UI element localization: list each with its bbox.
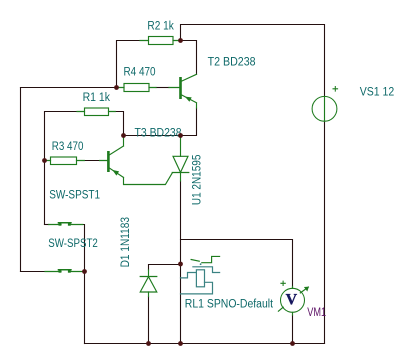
label R3 value <box>52 141 84 153</box>
resistor R2 <box>140 37 179 45</box>
wire SW1 left stub <box>45 224 49 226</box>
wire branch to VM1 <box>181 240 293 289</box>
wire R2 node to T2 collector <box>181 41 197 75</box>
voltmeter VM1 <box>278 281 309 315</box>
voltage source VS1 <box>312 86 338 121</box>
svg-text:R4 470: R4 470 <box>124 66 156 78</box>
wire node row U1 to T3 <box>124 135 181 137</box>
junction T3 collector node <box>121 133 126 138</box>
label R2 value <box>147 21 174 33</box>
svg-text:R2 1k: R2 1k <box>147 21 174 33</box>
resistor R4 <box>117 84 180 92</box>
svg-text:R3 470: R3 470 <box>52 141 84 153</box>
transistor T2 <box>179 74 196 108</box>
resistor R1 <box>77 108 115 116</box>
wire R1 left branch <box>45 112 78 225</box>
svg-text:R1 1k: R1 1k <box>83 92 111 104</box>
wire VM1 bottom <box>292 315 294 344</box>
thyristor U1 <box>172 136 189 182</box>
label SW-SPST1 <box>49 189 100 201</box>
label SW-SPST2 <box>48 238 98 250</box>
wire SW1 out down to SW2 node <box>83 225 85 272</box>
junction R4 left <box>114 85 119 90</box>
svg-text:RL1 SPNO-Default: RL1 SPNO-Default <box>185 299 274 311</box>
wire SW2 left stub <box>21 271 46 273</box>
svg-text:T3 BD238: T3 BD238 <box>135 128 182 140</box>
svg-text:T2 BD238: T2 BD238 <box>208 56 256 68</box>
wire node to D1 <box>149 265 181 271</box>
wire right rail <box>324 121 326 343</box>
wire SW2 node down <box>84 272 86 344</box>
wire left rail <box>20 88 22 272</box>
wire R1 right to T3 collector node <box>115 112 123 136</box>
switch SW-SPST1 <box>49 222 83 226</box>
label RL1 <box>185 299 274 311</box>
junction D1 bottom rail <box>146 341 151 346</box>
label D1 <box>120 217 132 267</box>
label T3 <box>135 128 182 140</box>
svg-text:SW-SPST2: SW-SPST2 <box>48 238 98 250</box>
label VS1 <box>360 87 395 99</box>
junction R3 left <box>42 158 47 163</box>
wire top rail to VS1 <box>181 25 325 97</box>
transistor T3 <box>107 136 123 178</box>
label R1 value <box>83 92 111 104</box>
svg-text:U1 2N1595: U1 2N1595 <box>191 155 203 206</box>
junction SW2 out <box>82 269 87 274</box>
wire R4 to T2 base mid <box>156 87 169 89</box>
svg-text:SW-SPST1: SW-SPST1 <box>49 189 100 201</box>
junction relay bottom rail <box>178 341 183 346</box>
label VM1 <box>307 307 326 319</box>
wire T2 emitter to node row <box>181 108 197 136</box>
junction R2 right <box>178 38 183 43</box>
junction VM1 bottom rail <box>290 341 295 346</box>
wire left rail to R4 node <box>21 87 117 89</box>
switch SW-SPST2 <box>45 269 83 273</box>
wire T3 emitter to U1 gate <box>124 173 173 185</box>
wire bottom rail <box>85 343 325 345</box>
diode D1 <box>140 270 157 297</box>
relay RL1 <box>181 256 220 294</box>
wire D1 bottom <box>148 297 150 344</box>
svg-text:V: V <box>286 292 298 309</box>
label T2 <box>208 56 256 68</box>
wire U1 cathode down <box>180 181 182 264</box>
label R4 value <box>124 66 156 78</box>
wire R3 to T3 base mid <box>84 160 99 162</box>
junction U1 anode node <box>178 133 183 138</box>
resistor R3 <box>45 157 108 165</box>
svg-text:VS1 12: VS1 12 <box>360 87 395 99</box>
svg-text:D1 1N1183: D1 1N1183 <box>120 217 132 267</box>
wire relay node down <box>180 264 182 344</box>
junction relay node <box>178 262 183 267</box>
wire R2 left branch <box>117 41 141 88</box>
svg-text:VM1: VM1 <box>307 307 326 319</box>
label U1 <box>191 155 203 206</box>
